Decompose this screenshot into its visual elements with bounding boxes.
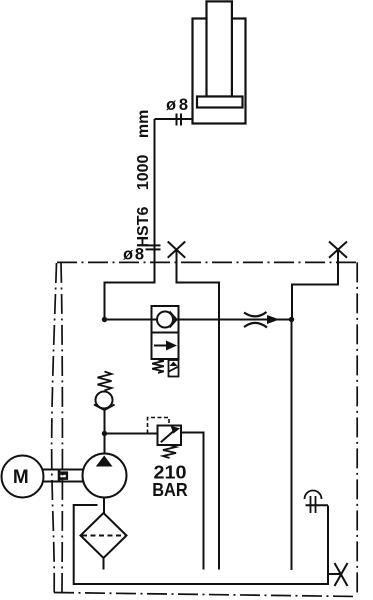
- plugged port X (right): [329, 242, 347, 258]
- valve V1 body (2-position poppet valve): [152, 306, 179, 359]
- wire: drain stub: [328, 573, 341, 575]
- shaft coupling: [58, 469, 68, 482]
- relief valve RV1: [158, 426, 182, 446]
- valve V1 return spring: [152, 360, 164, 373]
- check valve CV1 ball: [96, 392, 113, 409]
- node junction (relief tee): [102, 431, 107, 436]
- svg-text:ø8: ø8: [166, 96, 188, 114]
- breather base line: [306, 504, 329, 506]
- wire: left X port to tank drain: [177, 250, 220, 570]
- relief valve RV1 spring: [163, 445, 176, 458]
- svg-text:BAR: BAR: [152, 480, 188, 500]
- node junction (top left): [102, 317, 107, 322]
- valve V1 open position (arrow): [154, 341, 177, 351]
- throttle (fixed orifice with flow arrow): [244, 312, 280, 328]
- pump P1 outlet triangle: [96, 456, 113, 467]
- check valve CV1 seat: [94, 405, 115, 411]
- drain plug X: [335, 563, 348, 586]
- svg-text:ø8: ø8: [123, 246, 144, 264]
- plugged port X (left): [168, 242, 186, 258]
- valve V1 check position (ball + seat): [157, 312, 177, 328]
- motor M1: [2, 456, 44, 498]
- wire: pump suction: [103, 498, 105, 514]
- breather / filler cap: [305, 491, 322, 514]
- pump P1: [83, 454, 127, 498]
- wire: throttle junction to tank: [291, 320, 293, 571]
- shaft motor-pump: [43, 470, 84, 482]
- wire: relief valve outlet to tank: [181, 433, 204, 570]
- node junction (throttle outlet): [289, 317, 294, 322]
- cylinder C1 piston rod: [207, 1, 232, 96]
- enclosure boundary (dash-dot power unit box): [52, 262, 358, 596]
- relief valve RV1 pilot line (dashed): [148, 418, 170, 434]
- coupling (bottom quick-disconnect): [146, 245, 161, 249]
- coupling (top quick-disconnect): [177, 114, 182, 126]
- wire: main flow line through valve: [105, 319, 292, 321]
- svg-text:HST6 1000 mm: HST6 1000 mm: [135, 110, 152, 248]
- cylinder C1 body: [193, 19, 246, 124]
- wire: hose down from cylinder: [105, 119, 155, 320]
- wire: filter stub into tank: [103, 558, 105, 570]
- cylinder C1 piston: [197, 97, 243, 108]
- check valve CV1 spring: [98, 372, 112, 391]
- tank T1 (reservoir outline): [74, 505, 328, 584]
- wire: right X port down to throttle junction: [292, 250, 338, 320]
- wire: relief valve inlet: [105, 433, 158, 435]
- svg-text:M: M: [13, 467, 29, 488]
- suction filter F1: [81, 513, 127, 558]
- wire: cylinder port line: [155, 118, 193, 120]
- valve V1 solenoid: [169, 360, 179, 377]
- wire: check valve to pump: [104, 409, 106, 456]
